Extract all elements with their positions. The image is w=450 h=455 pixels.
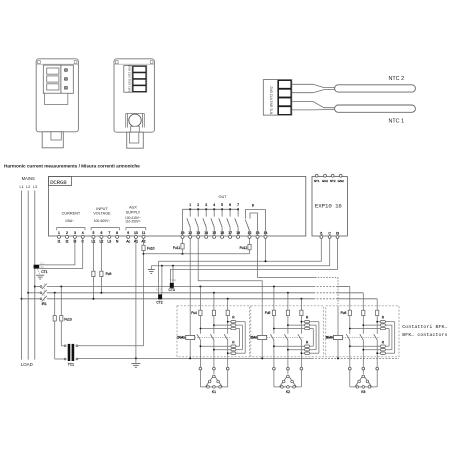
node CT3 common tap	[172, 265, 174, 283]
svg-text:L2: L2	[26, 185, 30, 189]
terminal 16 (relay out) of DCRG8	[220, 231, 224, 238]
capacitor bank K8 delta	[350, 375, 377, 394]
svg-text:LOAD: LOAD	[21, 362, 33, 367]
wire terminal 5 (L1) to bus	[92, 238, 94, 298]
terminal 12 (OUT8) of DCRG8	[248, 231, 252, 238]
svg-text:Fu4: Fu4	[191, 311, 197, 315]
dashed enclosure branch K8	[326, 306, 399, 357]
capacitor bushing phase b branch K2	[287, 367, 290, 374]
svg-text:NT1: NT1	[314, 179, 320, 183]
relay contact OUT5	[219, 203, 223, 235]
svg-text:Ac: Ac	[126, 240, 130, 244]
contactor contact KM1 phase c	[224, 334, 228, 367]
node junction A2 feed / FU11	[182, 253, 184, 255]
svg-text:INPUT: INPUT	[96, 207, 108, 211]
dashed enclosure branch K1	[177, 306, 250, 357]
relay contact OUT1	[187, 203, 191, 235]
wire phase a drop branch K8	[349, 287, 351, 311]
mechanical linkage KM2	[267, 336, 304, 338]
wire phase c drop branch K1	[227, 299, 229, 310]
terminal C of EXP10 16	[328, 231, 331, 238]
terminal 15 (relay out) of DCRG8	[212, 231, 216, 238]
wire relay common bus (terminal 19)	[183, 209, 239, 235]
svg-text:4: 4	[82, 231, 84, 235]
svg-text:5: 5	[221, 203, 223, 207]
fuse Fu4b branch K1	[212, 310, 215, 315]
svg-text:I2: I2	[66, 240, 69, 244]
svg-text:S1S2: S1S2	[156, 287, 163, 291]
relay contact OUT2	[195, 203, 199, 235]
ground at CT1	[36, 269, 44, 279]
wire CT1 S1 to terminal 3	[39, 238, 75, 265]
wire OUT2 to contactor KM2 coil	[198, 238, 262, 335]
ground main (neutral)	[131, 358, 140, 367]
svg-text:NT1 GN1 NT2 GN2: NT1 GN1 NT2 GN2	[269, 86, 273, 114]
relay contact OUT7	[235, 203, 239, 235]
capacitor bushing phase c branch K2	[300, 367, 303, 387]
connector J1 NTC terminal block	[263, 80, 292, 116]
resistor group R upper branch K1	[200, 315, 246, 329]
svg-text:Contattori BFK…: Contattori BFK…	[402, 324, 447, 330]
contactor coil KM1	[177, 335, 195, 339]
svg-text:IR1: IR1	[42, 302, 47, 306]
expansion module EXP10 16 outline	[312, 177, 347, 237]
svg-text:3: 3	[74, 231, 76, 235]
terminal 7 (L3) of DCRG8	[107, 231, 111, 243]
wire mains L1	[21, 191, 23, 360]
terminal GN1 of EXP10 16	[322, 174, 329, 183]
capacitor bushing phase c branch K1	[226, 367, 229, 387]
wire bus L3 tap to TC1 primary	[60, 286, 62, 316]
svg-text:Fu10: Fu10	[147, 246, 155, 250]
svg-text:GN1: GN1	[322, 179, 329, 183]
capacitor bushing phase b branch K8	[362, 367, 365, 374]
terminal 19 (relay out) of DCRG8	[181, 231, 185, 238]
dashed enclosure branch K2	[251, 306, 323, 357]
wire NTC2 pair	[292, 84, 335, 87]
terminal 17 (relay out) of DCRG8	[228, 231, 232, 238]
svg-text:SUPPLY: SUPPLY	[126, 210, 141, 214]
terminal 13 (OUT8) of DCRG8	[256, 231, 260, 238]
fuse Fu5c branch K2	[300, 310, 303, 315]
svg-text:11: 11	[142, 231, 146, 235]
fuse FU10 on A2	[142, 238, 155, 250]
label AUX SUPPLY group	[125, 206, 146, 231]
terminal 1 (I1) of DCRG8	[58, 231, 61, 243]
resistor group R upper branch K2	[273, 315, 319, 329]
node neutral / A1 junction	[135, 357, 137, 359]
node tap L3 to bus	[34, 286, 36, 288]
wire phase b drop branch K2	[287, 293, 289, 310]
wire mains L3	[34, 191, 36, 360]
svg-text:I1: I1	[58, 240, 61, 244]
terminal 4 (C) of DCRG8	[81, 231, 84, 243]
node bus tap phase b branch K2	[287, 292, 289, 294]
device U2 interface module	[114, 59, 154, 148]
svg-text:3: 3	[205, 203, 207, 207]
node bus tap phase c branch K2	[300, 298, 302, 300]
svg-text:L3: L3	[107, 240, 111, 244]
capacitor bushing phase a branch K1	[199, 367, 202, 387]
contactor contact KM8 phase c	[374, 334, 378, 367]
fuse FU13a	[60, 316, 63, 321]
fuse Fu4c branch K1	[226, 310, 229, 315]
svg-text:EXP10 16: EXP10 16	[315, 203, 343, 210]
fuse Fu4a branch K1	[199, 310, 202, 315]
capacitor bank K1 delta	[200, 375, 227, 394]
fuse Fu5b branch K2	[286, 310, 289, 315]
svg-text:Fu6: Fu6	[341, 311, 347, 315]
svg-text:Fu12: Fu12	[240, 246, 248, 250]
resistor group R lower branch K8	[349, 340, 395, 354]
svg-text:NTC 2: NTC 2	[389, 76, 405, 82]
fuse Fu6c branch K8	[376, 310, 379, 315]
wire mains L2	[27, 191, 29, 360]
svg-text:CT2: CT2	[156, 300, 162, 304]
relay contact OUT4	[211, 203, 215, 235]
svg-text:6: 6	[100, 231, 102, 235]
svg-text:S1S2: S1S2	[169, 278, 176, 282]
capacitor bushing phase b branch K1	[213, 367, 216, 374]
contactor contact KM2 phase b	[284, 334, 288, 367]
wire resistor returns branch K1	[240, 322, 246, 354]
node bus tap phase a branch K2	[273, 286, 275, 288]
wire NTC1 pair	[292, 102, 335, 108]
node tap L2 to bus	[27, 292, 29, 294]
svg-text:CT1: CT1	[41, 270, 47, 274]
wire OUT8 NO to contactor KM8 coil	[258, 238, 339, 335]
wire resistor returns branch K8	[389, 322, 395, 354]
svg-text:KM2: KM2	[250, 336, 257, 340]
current transformer CT2	[156, 287, 163, 304]
svg-text:C: C	[328, 231, 331, 235]
svg-text:NT2: NT2	[330, 179, 336, 183]
svg-text:GN2: GN2	[338, 179, 345, 183]
note contactors text	[402, 324, 447, 338]
fuse FU13b	[53, 316, 56, 321]
svg-text:AUX: AUX	[129, 206, 137, 210]
svg-text:5: 5	[92, 231, 94, 235]
fuse Fu6b branch K8	[362, 310, 365, 315]
fuse FU9 on L2 voltage input	[100, 271, 112, 276]
terminal 9 (Ac) of DCRG8	[126, 231, 130, 243]
wire coil KM1 to neutral	[189, 340, 191, 360]
terminal 6 (L2) of DCRG8	[100, 231, 104, 243]
svg-text:9: 9	[127, 231, 129, 235]
svg-text:VOLTAGE: VOLTAGE	[93, 212, 111, 216]
svg-text:BFK… contactors: BFK… contactors	[402, 332, 447, 338]
label CURRENT group	[57, 211, 85, 230]
wire bus phase L1 (bottom)	[47, 298, 377, 300]
svg-text:CT3: CT3	[168, 288, 174, 292]
wire OUT1 to contactor KM1 coil	[189, 238, 191, 335]
svg-text:MAINS: MAINS	[22, 176, 35, 181]
node tap L1 to bus	[21, 298, 23, 300]
svg-text:2: 2	[66, 231, 68, 235]
wire phase a drop branch K1	[199, 287, 201, 311]
sensor NTC 1 probe	[335, 105, 416, 112]
wire phase c drop branch K8	[376, 299, 378, 310]
svg-text:K8: K8	[361, 390, 365, 394]
svg-text:TC1: TC1	[68, 362, 74, 366]
node bus tap phase b branch K1	[213, 292, 215, 294]
wire coil KM8 to neutral	[337, 340, 339, 360]
current transformer CT3	[168, 278, 176, 292]
svg-text:Harmonic current measurements: Harmonic current measurements / Misura c…	[4, 164, 140, 170]
capacitor bushing phase a branch K8	[348, 367, 351, 387]
contactor coil KM2	[250, 335, 266, 339]
svg-text:KM1: KM1	[178, 336, 185, 340]
svg-text:L1: L1	[20, 185, 24, 189]
wire A2 down to TC1	[143, 251, 145, 346]
capacitor bushing phase a branch K2	[273, 367, 276, 387]
wire terminal 6 (L2) to bus	[100, 238, 102, 292]
capacitor bank K2 delta	[274, 375, 302, 394]
transformer TC1	[64, 344, 78, 367]
relay contact OUT6	[227, 203, 231, 235]
terminal 5 (L1) of DCRG8	[92, 231, 96, 243]
mechanical linkage KM8	[343, 336, 380, 338]
node bus tap phase a branch K1	[199, 286, 201, 288]
svg-text:K1: K1	[212, 390, 216, 394]
svg-text:1: 1	[58, 231, 60, 235]
terminal 2 (I2) of DCRG8	[66, 231, 69, 243]
wire phase a drop branch K2	[273, 287, 275, 311]
node bus tap phase c branch K1	[227, 298, 229, 300]
svg-text:100-600V~: 100-600V~	[94, 219, 111, 223]
wire OUT8 terminal 14 tap	[265, 238, 267, 262]
wire coil KM2 to neutral	[261, 340, 263, 360]
svg-text:L3: L3	[33, 185, 37, 189]
terminal 14 (OUT8) of DCRG8	[264, 231, 268, 238]
contactor contact KM2 phase a	[270, 334, 274, 367]
contactor contact KM1 phase b	[210, 334, 214, 367]
terminal I3 of EXP10 16	[336, 231, 339, 238]
wire bus phase L2 (middle)	[47, 292, 364, 294]
svg-text:Fu11: Fu11	[173, 246, 180, 250]
ground at EXP common	[148, 266, 155, 274]
terminal NT2 of EXP10 16	[330, 174, 336, 183]
svg-text:KM8: KM8	[326, 336, 333, 340]
svg-text:I3: I3	[336, 231, 339, 235]
wire bus phase L3 (top)	[47, 286, 350, 288]
wire phase c drop branch K2	[300, 299, 302, 310]
contactor coil KM8	[326, 335, 343, 339]
svg-text:10: 10	[134, 231, 138, 235]
contactor contact KM1 phase a	[197, 334, 201, 367]
wire bus L2 tap to TC1 primary	[54, 292, 56, 316]
mechanical linkage KM1	[195, 336, 231, 338]
svg-text:Fu9: Fu9	[106, 272, 112, 276]
terminal 3 (I3) of DCRG8	[73, 231, 76, 243]
svg-text:4: 4	[213, 203, 215, 207]
contactor contact KM2 phase c	[298, 334, 302, 367]
terminal 12 (relay out) of DCRG8	[188, 231, 192, 238]
fuse FU9a on L1 voltage input	[92, 271, 95, 276]
circuit breaker IR1 (3-pole)	[40, 283, 47, 306]
wire EXP I1 to CT2	[159, 238, 322, 294]
terminal 10 (A1) of DCRG8	[134, 231, 138, 243]
resistor group R upper branch K8	[349, 315, 395, 329]
contactor contact KM8 phase b	[360, 334, 364, 367]
terminal 8 (N) of DCRG8	[116, 231, 119, 243]
device U1 current sensor module	[36, 59, 78, 148]
fuse Fu6a branch K8	[348, 310, 351, 315]
svg-text:NTC 1: NTC 1	[389, 119, 405, 125]
svg-text:110-250V=: 110-250V=	[125, 220, 141, 224]
svg-text:Fu5: Fu5	[265, 311, 271, 315]
terminal 18 (relay out) of DCRG8	[236, 231, 240, 238]
terminal 14 (relay out) of DCRG8	[204, 231, 208, 238]
resistor group R lower branch K1	[200, 340, 246, 354]
svg-text:8: 8	[252, 203, 254, 207]
relay contact OUT3	[203, 203, 207, 235]
svg-text:CURRENT: CURRENT	[62, 211, 81, 215]
wire TC1 secondary neutral line	[78, 357, 399, 359]
resistor group R lower branch K2	[273, 340, 319, 354]
terminal 13 (relay out) of DCRG8	[196, 231, 200, 238]
capacitor bushing phase c branch K8	[376, 367, 379, 387]
fuse FU12 on OUT8 terminal 12	[240, 238, 251, 253]
svg-text:K2: K2	[286, 390, 290, 394]
current transformer CT1	[34, 261, 48, 274]
wire EXP C common to ground	[151, 238, 329, 265]
svg-text:DCRG8: DCRG8	[50, 179, 67, 186]
terminal NT1 of EXP10 16	[314, 174, 320, 183]
svg-text:NT1 GN1 NT2 GN2: NT1 GN1 NT2 GN2	[127, 64, 131, 91]
node CT2 common tap	[161, 265, 163, 295]
fuse FU11 on terminal 19	[173, 238, 184, 253]
wire CT1 S2 to terminal 4	[39, 238, 82, 268]
svg-text:2: 2	[197, 203, 199, 207]
fuse Fu5a branch K2	[272, 310, 275, 315]
wire phase b drop branch K1	[213, 293, 215, 310]
controller DCRG8 outline	[49, 177, 306, 237]
wire TC1 secondary to A2 feed	[78, 345, 144, 347]
wire A2 control feed	[144, 253, 250, 255]
wire resistor returns branch K2	[313, 322, 319, 354]
svg-text:1: 1	[189, 203, 191, 207]
wire phase b drop branch K8	[362, 293, 364, 310]
wire EXP I3 to CT3	[171, 238, 338, 282]
svg-text:7: 7	[237, 203, 239, 207]
svg-text:I1: I1	[320, 231, 323, 235]
terminal I1 of EXP10 16	[320, 231, 323, 238]
svg-text:Fu13: Fu13	[64, 317, 72, 321]
contactor contact KM8 phase a	[346, 334, 350, 367]
svg-text:6: 6	[229, 203, 231, 207]
terminal 11 (A2) of DCRG8	[141, 231, 145, 243]
svg-text:OUT: OUT	[218, 195, 227, 199]
svg-text:8: 8	[116, 231, 118, 235]
terminal GN2 of EXP10 16	[338, 174, 345, 183]
sensor NTC 2 probe	[335, 85, 416, 92]
wire A1 to neutral line	[135, 238, 137, 358]
svg-text:1/5A~: 1/5A~	[65, 219, 74, 223]
svg-text:7: 7	[108, 231, 110, 235]
label INPUT VOLTAGE group	[91, 207, 119, 230]
relay contact OUT8 (changeover)	[245, 203, 265, 235]
